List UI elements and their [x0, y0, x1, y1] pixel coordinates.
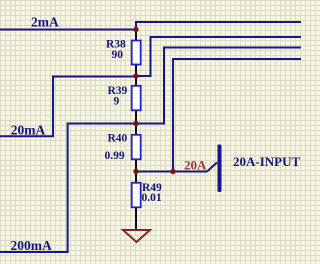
svg-text:20A: 20A	[184, 157, 207, 172]
port 20A-INPUT bar	[218, 145, 222, 193]
svg-text:90: 90	[112, 49, 124, 61]
wire net 20A diagonal to port	[207, 163, 217, 172]
junction dot J2 net 20mA	[133, 73, 138, 78]
svg-text:20mA: 20mA	[11, 122, 46, 137]
ground symbol	[123, 230, 150, 242]
junction dot J4 net 20A	[133, 169, 138, 174]
pin stub junction2 to R39 top	[135, 76, 137, 86]
pin stub junction4 to R49 top	[135, 172, 137, 184]
resistor R49 body	[132, 183, 141, 208]
junction dot J1 net 2mA	[133, 27, 138, 32]
wire net 20A vertical up to right edge	[173, 59, 301, 172]
pin stub R39 bottom to junction3	[135, 110, 137, 124]
wire net 2mA horizontal left	[0, 29, 136, 31]
resistor R39 body	[132, 86, 141, 111]
pin stub junction3 to R40 top	[135, 124, 137, 136]
pin stub junction1 to R38 top	[135, 30, 137, 42]
svg-text:R40: R40	[108, 133, 128, 145]
resistor R40 body	[132, 135, 141, 160]
svg-text:0.99: 0.99	[105, 150, 125, 162]
wire net 200mA junction3 to corner right	[136, 48, 301, 124]
pin stub R40 bottom to junction4	[135, 159, 137, 172]
svg-text:200mA: 200mA	[11, 238, 52, 253]
svg-text:2mA: 2mA	[31, 14, 59, 29]
wire net 2mA stub up from junction	[135, 22, 137, 30]
pin stub R38 bottom to junction2	[135, 64, 137, 76]
pin stub R49 bottom to ground	[135, 207, 137, 229]
junction dot J3 net 200mA	[133, 121, 138, 126]
svg-text:9: 9	[114, 96, 120, 108]
wire net 200mA junction3 to left and down to bottom	[0, 124, 136, 253]
resistor R38 body	[132, 41, 141, 65]
svg-text:20A-INPUT: 20A-INPUT	[233, 154, 300, 169]
wire net 20mA junction2 to left and down	[0, 77, 136, 137]
wire net 2mA horizontal to right edge	[135, 21, 301, 23]
junction dot J5 on 20A wire	[170, 169, 175, 174]
svg-text:0.01: 0.01	[142, 192, 162, 204]
wire net 20mA junction2 to corner right	[136, 37, 301, 76]
wire net 20A junction4 horizontal right	[136, 171, 207, 173]
